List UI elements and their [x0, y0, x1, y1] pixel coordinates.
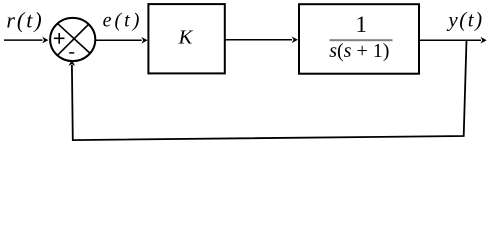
fraction bar: [330, 39, 393, 41]
summing junction S1: [50, 18, 95, 61]
plus sign: [54, 33, 65, 44]
wire: feedback path from takeoff to summing junction: [69, 40, 467, 140]
wire: input into summing junction: [4, 37, 48, 44]
wire: plant to output y(t): [419, 37, 487, 44]
wire: block K to plant block: [225, 37, 298, 44]
minus sign: [69, 52, 74, 54]
svg-text:r(t): r(t): [6, 8, 43, 33]
block K: [148, 4, 224, 73]
svg-text:s(s + 1): s(s + 1): [329, 40, 389, 62]
svg-text:y(t): y(t): [446, 8, 483, 32]
svg-text:1: 1: [356, 12, 368, 37]
svg-text:e(t): e(t): [103, 9, 143, 31]
block plant G(s): [299, 4, 419, 74]
svg-text:K: K: [178, 27, 194, 49]
wire: summing junction to block K: [96, 37, 148, 44]
